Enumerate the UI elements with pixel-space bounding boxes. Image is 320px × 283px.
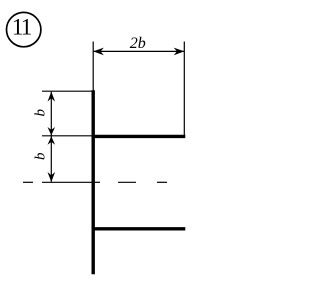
svg-text:b: b: [33, 152, 49, 160]
svg-text:b: b: [33, 109, 49, 117]
svg-text:2b: 2b: [130, 35, 146, 52]
svg-text:11: 11: [12, 14, 32, 39]
